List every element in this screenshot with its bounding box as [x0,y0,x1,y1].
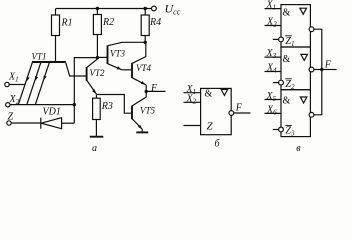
svg-text:X2: X2 [266,17,277,29]
svg-text:а: а [92,143,97,154]
wire X2 input v [265,25,282,27]
wire F output b [234,112,251,114]
overbar Z3 v [285,124,292,126]
wire X4 input v [265,71,282,73]
nabla symbol b [221,89,228,95]
wire R3 bottom [95,120,97,137]
overbar Z1 v [285,35,292,37]
svg-text:&: & [283,96,291,107]
wire expander riser [74,58,97,124]
svg-text:F: F [324,60,332,71]
wire emitter node to VT5 base [96,95,132,114]
wire X2 input [10,104,74,106]
inversion bubble output 3 v [309,112,314,117]
svg-text:X1: X1 [266,0,277,12]
wire R4 bottom [144,36,146,43]
svg-text:X4: X4 [266,63,277,75]
inversion bubble output 1 v [309,27,314,32]
wire X3 input v [265,56,282,58]
terminal Z [7,121,11,125]
svg-text:&: & [205,89,213,100]
wire VT4 emitter to F node [145,85,147,92]
transistor VT1 emitter 3 [36,62,50,104]
transistor VT3 base bar [107,46,109,65]
wire R4 top [144,9,146,16]
svg-text:X5: X5 [266,91,277,103]
wire VD1 to riser [62,122,75,124]
svg-text:&: & [283,54,291,65]
ground under R3 [90,136,104,138]
wire output 1 to bus [314,29,322,69]
wire Z1 stub v [273,38,279,40]
transistor VT2 emitter [87,81,97,95]
transistor VT1 emitter 1 [19,62,33,104]
transistor VT1 multi-emitter base bar [32,61,66,63]
transistor VT5 emitter [132,119,142,132]
wire X1 input v [265,8,282,10]
transistor VT4 base bar [131,63,133,78]
svg-text:Z1: Z1 [285,36,294,48]
wire node to VT3 base [97,56,107,58]
node R4 top junction [144,7,147,10]
wire VT3 emitter to VT4 base [122,69,133,71]
svg-text:Z: Z [207,121,214,133]
wire top power rail [56,8,152,10]
wire X6 input v [265,112,282,114]
svg-text:X6: X6 [266,105,277,117]
terminal X2 [6,103,10,107]
resistor R1 [52,15,60,36]
svg-text:Z3: Z3 [285,126,295,138]
svg-text:X2: X2 [9,94,20,106]
terminal Ucc [152,6,157,11]
wire Z3 stub v [273,129,279,131]
transistor VT3 collector [108,42,145,45]
svg-text:X3: X3 [266,48,277,60]
svg-text:F: F [150,83,158,94]
gate block 1 v [281,5,310,47]
svg-text:VT1: VT1 [32,52,47,62]
wire output 2 to bus [314,69,322,71]
diagram v blocks [265,5,337,137]
inversion bubble output 2 v [309,67,314,72]
gate block 2 v [281,47,310,90]
resistor R3 [93,98,101,119]
node X2 diode junction [73,103,76,106]
transistor VT3 emitter [108,64,122,70]
wire R2 top [96,9,98,15]
inversion bubble Z1 input [279,37,284,42]
nabla symbol block 3 v [300,97,307,103]
inversion bubble Z2 input [279,80,284,85]
node R4 bottom junction [144,41,147,44]
diode VD1 [40,118,42,129]
inversion bubble output b [229,111,234,116]
transistor VT4 emitter [132,78,146,85]
wire F output [146,90,165,92]
transistor VT2 base bar [86,67,88,81]
wire F output v [322,69,337,71]
svg-text:F: F [235,103,243,114]
svg-text:R3: R3 [101,101,113,112]
svg-text:VT5: VT5 [140,106,156,116]
nabla symbol block 1 v [300,8,307,14]
transistor VT4 collector [132,42,146,63]
transistor VT5 collector [132,91,146,105]
gate symbol b block [184,88,251,134]
node VT2 collector junction [96,56,99,59]
transistor VT5 base bar [131,106,133,120]
svg-text:в: в [296,143,301,154]
wire R1 bottom to VT1 base [55,36,57,63]
transistor VT1 collector [66,63,87,76]
svg-text:Ucc: Ucc [165,2,181,17]
svg-text:VT4: VT4 [136,63,152,73]
svg-text:R1: R1 [61,18,73,29]
svg-text:VT3: VT3 [110,49,126,59]
nabla symbol block 2 v [301,54,308,60]
wire Z input [11,122,41,124]
svg-text:VT2: VT2 [90,68,106,78]
node F junction [145,90,148,93]
wire output 3 to bus [314,70,322,115]
node F bus junction [320,68,323,71]
svg-text:Z2: Z2 [285,79,295,91]
wire Z2 stub v [273,82,279,84]
svg-text:R2: R2 [102,17,114,28]
transistor VT2 collector [87,58,98,68]
wire X1 input b [184,92,201,94]
svg-text:&: & [283,8,291,19]
svg-text:Z: Z [8,112,14,123]
gate block 3 v [281,90,310,137]
wire R1 top [55,9,57,16]
wire Z input b [184,125,201,127]
inversion bubble Z3 input [279,127,284,132]
svg-text:б: б [215,139,221,150]
resistor R4 [141,15,149,36]
node VT2 emitter junction [95,95,97,99]
transistor VT1 emitter 2 [27,62,41,104]
resistor R2 [93,15,101,35]
wire X1 input [9,84,25,86]
ground under VT5 [136,131,148,133]
svg-text:X1: X1 [8,72,19,84]
node R2 top junction [96,7,99,10]
terminal X1 [5,82,9,86]
svg-text:VD1: VD1 [43,107,61,118]
wire X2 input b [184,101,201,103]
overbar Z2 v [285,78,292,80]
svg-text:R4: R4 [149,17,161,28]
wire R2 bottom to node [96,35,98,58]
wire X5 input v [265,99,282,101]
